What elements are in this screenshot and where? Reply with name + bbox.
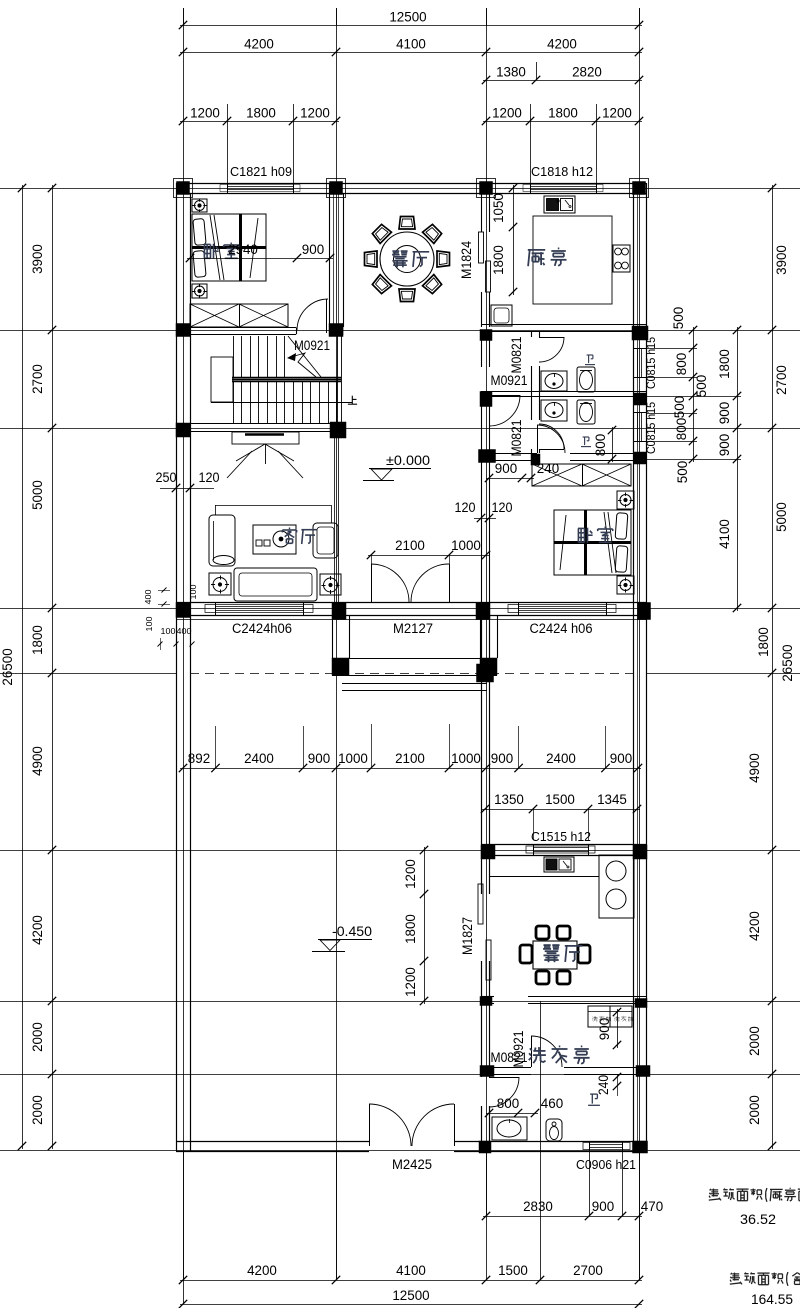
svg-text:M2127: M2127 bbox=[393, 621, 433, 636]
dim M1827 position bbox=[403, 846, 428, 1005]
window C1818 h12 bbox=[523, 183, 603, 194]
wall kitchen south bbox=[481, 325, 646, 332]
svg-text:4200: 4200 bbox=[30, 915, 45, 945]
label M0821 lower bbox=[509, 420, 524, 457]
svg-text:470: 470 bbox=[641, 1199, 664, 1214]
kitchen sink bbox=[544, 196, 575, 213]
stairs bbox=[211, 336, 352, 423]
room label bath2 bbox=[581, 437, 591, 447]
label C1818 h12 bbox=[531, 164, 593, 179]
dining table 2 bbox=[520, 926, 590, 984]
living east divider bbox=[335, 432, 339, 602]
svg-text:1200: 1200 bbox=[403, 967, 418, 997]
column B1 bbox=[327, 179, 346, 198]
svg-text:800: 800 bbox=[674, 417, 689, 440]
dim bottom 2830 900 470 bbox=[482, 1151, 664, 1220]
kitchen2 sink bbox=[544, 857, 574, 872]
svg-text:120: 120 bbox=[492, 500, 513, 515]
svg-text:1800: 1800 bbox=[548, 106, 578, 121]
svg-text:100: 100 bbox=[188, 584, 198, 599]
column C6 bbox=[481, 845, 495, 859]
wall lower north bbox=[481, 845, 646, 856]
wall corridor west bbox=[482, 331, 490, 453]
dim row 4200 4100 4200 bbox=[179, 37, 643, 57]
svg-text:4200: 4200 bbox=[244, 37, 274, 52]
sofa group living room bbox=[209, 505, 341, 601]
label M0921 corridor bbox=[491, 373, 528, 388]
column courtyard east bbox=[477, 664, 494, 682]
door M0921 corridor bbox=[489, 395, 520, 426]
wall bottom courtyard bbox=[176, 1142, 646, 1152]
column E divider bbox=[634, 393, 646, 405]
window C1515 h12 bbox=[526, 844, 595, 856]
svg-text:26500: 26500 bbox=[780, 644, 795, 682]
svg-text:1500: 1500 bbox=[545, 792, 575, 807]
svg-text:4900: 4900 bbox=[30, 746, 45, 776]
svg-text:M0821: M0821 bbox=[509, 337, 524, 374]
svg-text:M0921: M0921 bbox=[491, 373, 528, 388]
kitchen counter rect bbox=[533, 216, 612, 304]
wall bedroom2 west bbox=[482, 460, 490, 602]
label C2424h06 left bbox=[232, 621, 292, 636]
dim bath3 800 460 bbox=[485, 1096, 564, 1117]
living speaker right bbox=[322, 576, 340, 594]
wall laundry-bath bbox=[481, 1068, 646, 1075]
dim 120 120 bed2wall bbox=[455, 500, 513, 522]
bath3 squat toilet bbox=[546, 1119, 562, 1141]
svg-text:C1821 h09: C1821 h09 bbox=[230, 164, 292, 179]
bed bedroom1 bbox=[192, 214, 266, 281]
room label bedroom2 bbox=[578, 527, 613, 542]
svg-text:36.52: 36.52 bbox=[740, 1211, 776, 1227]
level -0.450 bbox=[312, 923, 372, 952]
column B2 bbox=[329, 324, 343, 337]
wall upper south (window wall) bbox=[176, 603, 646, 620]
svg-text:4100: 4100 bbox=[396, 37, 426, 52]
stair up label bbox=[348, 396, 357, 405]
column E2 bbox=[632, 326, 648, 340]
svg-text:100: 100 bbox=[144, 616, 154, 631]
column E1 bbox=[630, 179, 649, 198]
nightstand1a bbox=[192, 199, 207, 213]
svg-text:240: 240 bbox=[537, 461, 560, 476]
window C0815 h15 lower bbox=[633, 412, 647, 442]
svg-text:2000: 2000 bbox=[30, 1022, 45, 1052]
svg-text:2400: 2400 bbox=[244, 751, 274, 766]
svg-text:4100: 4100 bbox=[396, 1263, 426, 1278]
label M0821 upper bbox=[509, 337, 524, 374]
svg-text:100: 100 bbox=[161, 626, 176, 636]
kitchen fridge bbox=[491, 305, 512, 326]
svg-text:2100: 2100 bbox=[395, 538, 425, 553]
column C8 bbox=[480, 1066, 494, 1077]
svg-text:800: 800 bbox=[497, 1096, 520, 1111]
svg-text:M1827: M1827 bbox=[460, 917, 475, 955]
label M2127 bbox=[393, 621, 433, 636]
dim row windows right bbox=[482, 104, 643, 183]
column C9 bbox=[479, 1141, 491, 1153]
dim right small C0815 bbox=[646, 306, 709, 483]
svg-text:1200: 1200 bbox=[403, 859, 418, 889]
room label kitchen bbox=[528, 248, 567, 266]
svg-text:2700: 2700 bbox=[573, 1263, 603, 1278]
dim courtyard row bbox=[179, 724, 642, 772]
dim bedroom2 800 bbox=[593, 426, 616, 463]
door M0921 bedroom1 bbox=[297, 299, 330, 333]
svg-text:1050: 1050 bbox=[491, 193, 506, 223]
column C4 bbox=[476, 603, 490, 620]
bath1 sink bbox=[541, 371, 567, 391]
svg-text:2100: 2100 bbox=[395, 751, 425, 766]
svg-text:1350: 1350 bbox=[494, 792, 524, 807]
nightstand1b bbox=[192, 284, 207, 298]
room label bath1 bbox=[585, 355, 595, 365]
column bedroom1 door bbox=[333, 327, 343, 335]
svg-text:1800: 1800 bbox=[403, 914, 418, 944]
dim left column bbox=[30, 184, 56, 1150]
svg-text:900: 900 bbox=[717, 401, 732, 424]
door M1824 sliding bbox=[479, 232, 491, 292]
svg-text:1000: 1000 bbox=[451, 751, 481, 766]
nightstand2a bbox=[617, 491, 634, 509]
door M0921 bedroom2 bbox=[537, 425, 565, 453]
dim bedroom1 2940 900 bbox=[186, 242, 334, 262]
svg-text:4900: 4900 bbox=[747, 753, 762, 783]
svg-text:M1824: M1824 bbox=[459, 241, 474, 279]
dim 240 bbox=[596, 1073, 621, 1096]
label M1827 bbox=[460, 917, 475, 955]
svg-text:4200: 4200 bbox=[247, 1263, 277, 1278]
column B3 bbox=[330, 422, 346, 438]
room label bedroom1 bbox=[204, 243, 239, 258]
wall bath west bbox=[532, 331, 540, 453]
svg-text:900: 900 bbox=[592, 1199, 615, 1214]
door M0821 bath lower bbox=[539, 424, 564, 450]
svg-text:1800: 1800 bbox=[717, 349, 732, 379]
svg-text:250: 250 bbox=[156, 470, 177, 485]
svg-text:460: 460 bbox=[541, 1096, 564, 1111]
svg-text:1000: 1000 bbox=[338, 751, 368, 766]
dim left 26500 bbox=[0, 184, 26, 1150]
bath2 sink bbox=[541, 400, 567, 421]
room label laundry bbox=[529, 1046, 590, 1064]
living speaker left bbox=[211, 576, 229, 594]
porch column right bbox=[480, 658, 497, 675]
dining table round bbox=[365, 217, 450, 302]
svg-text:900: 900 bbox=[491, 751, 514, 766]
svg-text:4100: 4100 bbox=[717, 519, 732, 549]
svg-text:900: 900 bbox=[597, 1017, 612, 1040]
room label living bbox=[282, 528, 317, 544]
door M2425 double bbox=[369, 1104, 455, 1146]
window C1821 h09 bbox=[220, 183, 300, 194]
svg-text:C2424h06: C2424h06 bbox=[232, 621, 292, 636]
svg-text:800: 800 bbox=[674, 352, 689, 375]
svg-text:1345: 1345 bbox=[597, 792, 627, 807]
porch column left bbox=[332, 658, 349, 675]
svg-text:12500: 12500 bbox=[389, 10, 427, 25]
svg-text:1000: 1000 bbox=[451, 538, 481, 553]
text area total bbox=[730, 1272, 800, 1307]
level +0.000 bbox=[363, 452, 431, 481]
label M0821 bath3 bbox=[491, 1050, 528, 1065]
door M0921 stair label bbox=[287, 338, 330, 377]
svg-text:1800: 1800 bbox=[246, 106, 276, 121]
svg-text:400: 400 bbox=[143, 589, 153, 604]
window C2424h06 left bbox=[205, 602, 313, 616]
svg-text:M0921: M0921 bbox=[294, 338, 330, 353]
svg-text:2000: 2000 bbox=[30, 1095, 45, 1125]
column E4 bbox=[638, 603, 651, 620]
svg-text:500: 500 bbox=[675, 460, 690, 483]
label C1821 h09 bbox=[230, 164, 292, 179]
nightstand2b bbox=[617, 576, 634, 594]
svg-text:1380: 1380 bbox=[496, 65, 526, 80]
dim laundry 900 bbox=[597, 1008, 621, 1049]
dim tiny corner bbox=[143, 584, 198, 650]
svg-text:500: 500 bbox=[671, 306, 686, 329]
door M0821 bath3 bbox=[489, 1077, 519, 1107]
wall bedroom2 north bbox=[486, 454, 633, 461]
kitchen stove bbox=[613, 245, 630, 272]
svg-text:240: 240 bbox=[596, 1075, 611, 1095]
svg-text:1800: 1800 bbox=[491, 245, 506, 275]
dim door M2127 2100 1000 bbox=[367, 538, 490, 572]
dim bottom main bbox=[179, 1151, 643, 1284]
room label dining1 bbox=[392, 251, 429, 267]
wardrobe bedroom1 bbox=[190, 304, 288, 327]
svg-text:5000: 5000 bbox=[774, 502, 789, 532]
label C2424 h06 right bbox=[530, 621, 593, 636]
wall dining-kitchen M1824 wall bbox=[482, 193, 490, 327]
svg-text:120: 120 bbox=[199, 470, 220, 485]
svg-text:3900: 3900 bbox=[774, 245, 789, 275]
svg-text:500: 500 bbox=[672, 395, 687, 418]
svg-text:2700: 2700 bbox=[774, 365, 789, 395]
wardrobe bedroom2 bbox=[532, 464, 631, 486]
wall bath divider bbox=[481, 392, 646, 397]
svg-text:2400: 2400 bbox=[546, 751, 576, 766]
svg-text:400: 400 bbox=[177, 626, 192, 636]
kitchen2 counter bbox=[489, 855, 634, 918]
dim C1515 row bbox=[481, 792, 641, 840]
svg-text:C1818 h12: C1818 h12 bbox=[531, 164, 593, 179]
dim bedroom2 900 240 bbox=[485, 461, 560, 482]
svg-text:C0815 h15: C0815 h15 bbox=[646, 402, 658, 454]
column B4 bbox=[332, 603, 346, 620]
column E9 bbox=[633, 1141, 648, 1153]
label C1515 h12 bbox=[531, 829, 591, 844]
wall top exterior bbox=[176, 184, 646, 194]
label M2425 bbox=[392, 1157, 432, 1172]
column C1 bbox=[477, 179, 496, 198]
window C0815 h15 upper bbox=[633, 348, 647, 378]
svg-text:C0815 h15: C0815 h15 bbox=[646, 337, 658, 389]
column A1 bbox=[174, 179, 193, 198]
column E bed2 bbox=[634, 452, 646, 464]
column E8 bbox=[636, 1066, 650, 1077]
svg-text:2940: 2940 bbox=[228, 242, 258, 257]
door M0821 bath upper bbox=[539, 337, 564, 362]
svg-text:900: 900 bbox=[308, 751, 331, 766]
dim 250 120 leftwall bbox=[156, 470, 220, 492]
svg-text:26500: 26500 bbox=[0, 648, 15, 686]
wall right exterior bbox=[634, 183, 647, 1151]
bath1 toilet bbox=[577, 367, 595, 392]
svg-text:4200: 4200 bbox=[547, 37, 577, 52]
dim row windows left bbox=[179, 104, 340, 183]
svg-text:C2424 h06: C2424 h06 bbox=[530, 621, 593, 636]
svg-text:C1515 h12: C1515 h12 bbox=[531, 829, 591, 844]
door M0921 laundry bbox=[531, 1036, 562, 1067]
porch steps bbox=[342, 684, 487, 691]
column A3 bbox=[176, 423, 190, 437]
svg-text:1200: 1200 bbox=[492, 106, 522, 121]
svg-text:500: 500 bbox=[694, 374, 709, 397]
window C0906 h21 bbox=[583, 1141, 630, 1152]
column C bed2 bbox=[479, 450, 496, 463]
label C0815 upper bbox=[646, 337, 658, 389]
svg-text:164.55: 164.55 bbox=[751, 1291, 793, 1307]
svg-text:120: 120 bbox=[455, 500, 476, 515]
svg-text:±0.000: ±0.000 bbox=[386, 452, 430, 468]
dim kitchen 1050 1800 bbox=[491, 184, 517, 296]
dim right 26500 bbox=[780, 644, 795, 682]
column E6 bbox=[633, 845, 647, 859]
svg-text:M2425: M2425 bbox=[392, 1157, 432, 1172]
svg-text:900: 900 bbox=[495, 461, 518, 476]
svg-text:1200: 1200 bbox=[602, 106, 632, 121]
washing machines bbox=[588, 1006, 633, 1027]
svg-text:M0821: M0821 bbox=[509, 420, 524, 457]
label C0906 h21 bbox=[576, 1157, 636, 1172]
svg-text:1500: 1500 bbox=[498, 1263, 528, 1278]
text area kitchen bbox=[709, 1188, 800, 1227]
bath2 toilet bbox=[577, 400, 595, 424]
dim bottom 12500 bbox=[179, 1288, 643, 1308]
dim right 1800-900-900-4100 bbox=[646, 326, 741, 612]
svg-text:12500: 12500 bbox=[392, 1288, 430, 1303]
svg-text:-0.450: -0.450 bbox=[332, 923, 372, 939]
svg-text:1800: 1800 bbox=[756, 627, 771, 657]
wall left exterior bbox=[177, 183, 191, 1151]
dim right main bbox=[747, 184, 789, 1150]
column A4 bbox=[176, 603, 190, 618]
column bed2 door bbox=[531, 454, 540, 465]
door M1827 sliding bbox=[478, 884, 491, 980]
svg-text:4200: 4200 bbox=[747, 911, 762, 941]
svg-text:1800: 1800 bbox=[30, 625, 45, 655]
porch beam bbox=[332, 659, 497, 676]
door M2127 double bbox=[371, 564, 450, 602]
label C0815 lower bbox=[646, 402, 658, 454]
svg-text:2000: 2000 bbox=[747, 1095, 762, 1125]
wall stair south bbox=[176, 424, 346, 432]
dim row 1380 2820 bbox=[482, 62, 643, 84]
porch side walls bbox=[333, 615, 498, 658]
svg-text:900: 900 bbox=[302, 242, 325, 257]
room label bath3 bbox=[588, 1094, 600, 1105]
svg-text:2000: 2000 bbox=[747, 1026, 762, 1056]
svg-text:2820: 2820 bbox=[572, 65, 602, 80]
wall courtyard inner east bbox=[482, 615, 490, 1141]
svg-text:C0906 h21: C0906 h21 bbox=[576, 1157, 636, 1172]
entrance step arrows bbox=[227, 432, 303, 478]
wall bedroom1 east bbox=[330, 183, 344, 327]
room label dining2 bbox=[543, 945, 582, 962]
svg-text:892: 892 bbox=[188, 751, 210, 766]
wall kitchen2-laundry bbox=[481, 997, 646, 1004]
label M0921 laundry bbox=[511, 1031, 526, 1068]
svg-text:900: 900 bbox=[610, 751, 633, 766]
column C2 bbox=[480, 330, 492, 341]
svg-text:5000: 5000 bbox=[30, 480, 45, 510]
column C7 bbox=[480, 997, 492, 1006]
bath3 sink bbox=[492, 1117, 527, 1140]
svg-text:3900: 3900 bbox=[30, 244, 45, 274]
bed bedroom2 bbox=[554, 510, 631, 575]
svg-text:2830: 2830 bbox=[523, 1199, 553, 1214]
wall stair east rail bbox=[338, 335, 342, 423]
dim total width 12500 bbox=[179, 8, 643, 29]
label M1824 bbox=[459, 241, 474, 279]
column A2 bbox=[176, 324, 190, 337]
svg-text:1200: 1200 bbox=[300, 106, 330, 121]
svg-text:1200: 1200 bbox=[190, 106, 220, 121]
window C2424 h06 right bbox=[508, 602, 616, 616]
svg-text:900: 900 bbox=[717, 433, 732, 456]
svg-text:M0821: M0821 bbox=[491, 1050, 528, 1065]
svg-text:800: 800 bbox=[593, 433, 608, 456]
column C divider bbox=[480, 392, 492, 407]
column E7 bbox=[635, 999, 647, 1008]
wall bedroom1 south bbox=[176, 328, 297, 335]
svg-text:2700: 2700 bbox=[30, 364, 45, 394]
